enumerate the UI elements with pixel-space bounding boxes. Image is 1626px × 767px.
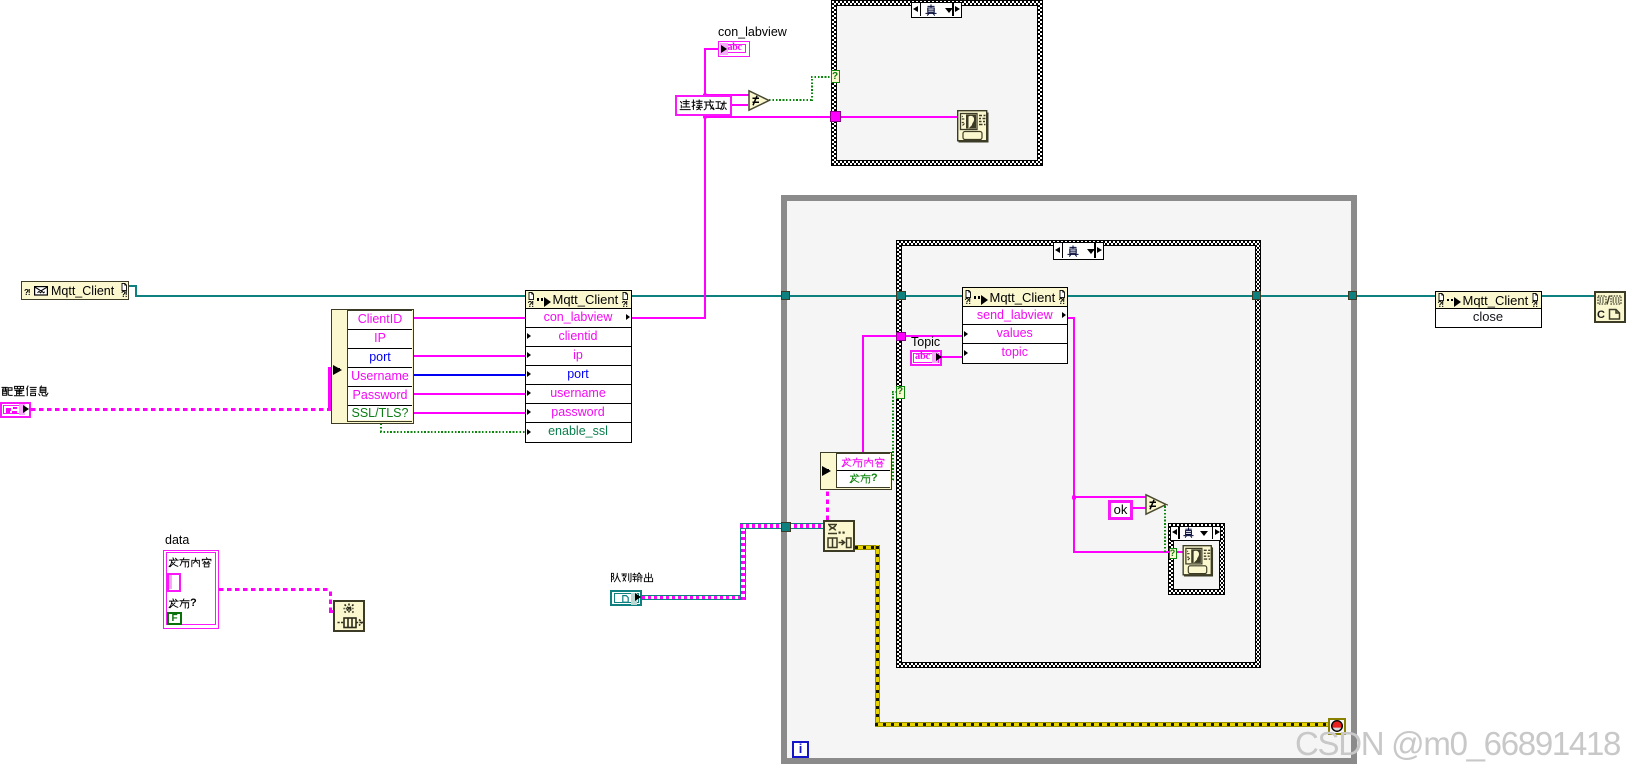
wire: cluster 配置信息 to unbundle	[31, 408, 331, 411]
node: invoke close Mqtt_Client	[1435, 291, 1542, 328]
case structure: small (ok dialog)	[1168, 523, 1225, 595]
label 队列输出	[610, 572, 654, 590]
label con_labview	[718, 26, 787, 39]
wire: 发布? boolean to inner selector	[892, 391, 894, 480]
tunnel: string into inner case	[896, 332, 906, 342]
case header: top case	[911, 2, 962, 18]
wire: con_labview riser	[631, 317, 705, 319]
node: unbundle by name (config)	[331, 309, 414, 425]
tunnel: queue into loop	[781, 522, 791, 532]
wire: class teal main horizontal	[129, 285, 137, 287]
control 队列输出 (queue refnum)	[610, 590, 642, 607]
node: property node Mqtt_Client (connect)	[525, 290, 632, 443]
constant Topic (string abc)	[910, 350, 942, 366]
iteration terminal i	[792, 741, 809, 758]
wire: unbundle1 to prop1 row wires	[414, 317, 525, 319]
wire: error from dequeue to loop stop	[855, 545, 879, 550]
node: one button dialog (small case)	[1182, 545, 1214, 577]
node: property node Mqtt_Client (send)	[962, 287, 1069, 364]
case structure: top (true case with dialog)	[831, 0, 1043, 166]
label data	[165, 534, 189, 547]
tunnel: class out of loop (right)	[1348, 291, 1358, 301]
junction dots	[703, 93, 707, 97]
tunnel: string into top case	[830, 111, 841, 122]
selector terminal ? (inner case)	[896, 386, 905, 399]
case header: inner case	[1053, 242, 1104, 260]
tunnel: class into inner case (left)	[896, 291, 906, 301]
node: close reference	[1594, 291, 1626, 323]
node: one button dialog (top case)	[957, 110, 989, 143]
wire: boolean SSL to enable_ssl	[380, 424, 382, 432]
op: not-equal neq1	[748, 90, 770, 111]
node: unbundle by name (发布内容/发布?)	[820, 452, 892, 490]
svg-text:C: C	[1597, 309, 1605, 321]
case structure: inner (true case, send)	[896, 240, 1261, 668]
tunnel: class into loop (left)	[781, 291, 791, 301]
tunnel: class out of inner case (right)	[1252, 291, 1262, 301]
loop condition terminal (stop)	[1328, 718, 1346, 735]
node: dequeue element	[823, 520, 855, 552]
constant 连接成功 (string)	[675, 95, 732, 116]
control Mqtt_Client (class in)	[21, 281, 129, 300]
selector terminal ? (top case)	[831, 70, 840, 83]
wire: queue refnum to dequeue	[642, 595, 746, 601]
wire: neq2 output boolean down to small case selector	[1164, 504, 1166, 552]
wire: constant to neq1	[732, 104, 748, 106]
wire: dequeue data to unbundle2	[826, 489, 829, 520]
label Topic	[911, 336, 940, 349]
control data (cluster of string + bool)	[163, 550, 219, 629]
wire: send_labview output down	[1068, 317, 1075, 319]
wire: data cluster to obtain queue	[219, 588, 331, 591]
op: not-equal neq2	[1145, 494, 1167, 515]
wire: dialog1 input inside case	[838, 116, 957, 118]
wire: neq1 output boolean to selector	[769, 99, 813, 101]
case header: small case	[1170, 526, 1221, 542]
indicator con_labview (string)	[718, 41, 750, 57]
wire: ok to neq2	[1133, 507, 1146, 509]
watermark CSDN	[1295, 725, 1620, 763]
label 配置信息	[1, 385, 49, 403]
control 配置信息 (cluster)	[0, 402, 31, 418]
wire: Topic constant to topic input	[942, 356, 962, 358]
constant ok (string)	[1108, 500, 1133, 520]
wire: 发布内容 to values via tunnel	[862, 335, 864, 452]
node: obtain queue	[333, 600, 365, 632]
selector terminal ? (small case)	[1169, 548, 1177, 559]
while loop	[781, 195, 1357, 764]
